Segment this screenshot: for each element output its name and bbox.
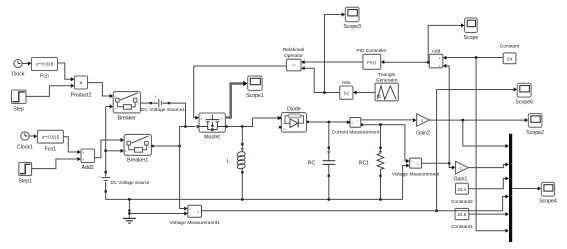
wire Breaker1 node down to Voltage Measurement1 plus bbox=[180, 146, 188, 211]
svg-text:Scope3: Scope3 bbox=[343, 24, 361, 30]
svg-text:Scope2: Scope2 bbox=[526, 130, 544, 136]
svg-text:+: + bbox=[98, 175, 100, 179]
resistor RC1 branch wire bbox=[380, 125, 382, 200]
wire Clock1 to Fcn1 bbox=[29, 134, 37, 138]
wire DC Voltage Source1 to Mosfet d bbox=[169, 103, 186, 125]
breaker block Breaker1 bbox=[124, 134, 151, 163]
wire Current Measurement i to Gain2 bbox=[361, 118, 417, 122]
svg-text:×: × bbox=[79, 81, 83, 87]
current measurement block Current Measurement bbox=[332, 118, 380, 136]
svg-text:Current Measurement: Current Measurement bbox=[332, 130, 380, 136]
svg-text:Scope6: Scope6 bbox=[515, 100, 533, 106]
svg-text:Operator: Operator bbox=[284, 53, 303, 59]
svg-text:+: + bbox=[189, 208, 191, 212]
svg-text:Fcn1: Fcn1 bbox=[45, 147, 57, 153]
svg-text:Scope: Scope bbox=[464, 35, 479, 41]
svg-text:v: v bbox=[197, 210, 199, 214]
scope block Scope6 bbox=[515, 83, 533, 105]
wire Voltage Measurement1 out bbox=[202, 209, 439, 212]
wire Mosfet right terminal to diode node bbox=[225, 125, 243, 128]
electrical bus vertical x105.7 Breaker in1 / Breaker1 in1 / DC Voltage Source bbox=[104, 104, 124, 199]
adder block Add bbox=[429, 48, 443, 68]
triangle generator block Triangle Generator bbox=[375, 72, 398, 101]
svg-text:DC Voltage Source1: DC Voltage Source1 bbox=[141, 107, 186, 113]
svg-text:Add2: Add2 bbox=[82, 165, 94, 171]
capacitor RC branch wire bbox=[328, 122, 330, 199]
adder block Add2 bbox=[81, 149, 95, 171]
svg-text:RC: RC bbox=[308, 161, 316, 167]
voltage measurement block Voltage Measurement bbox=[392, 158, 440, 177]
wire Mux out to Scope4 bbox=[512, 186, 541, 190]
ground symbol bbox=[123, 209, 136, 223]
step block Step1 bbox=[18, 162, 32, 184]
scope block Scope2 bbox=[526, 114, 544, 136]
wire Breaker1 out rail bbox=[151, 145, 181, 148]
wire Abs out to Relational Operator in2 and Scope3 bbox=[301, 12, 345, 94]
svg-text:u*+0.018: u*+0.018 bbox=[36, 62, 54, 67]
svg-text:Step: Step bbox=[13, 107, 24, 113]
clock block Clock1 bbox=[17, 132, 33, 151]
svg-text:Clock1: Clock1 bbox=[17, 145, 33, 151]
wire Gain1 to Mux in2 bbox=[468, 162, 509, 167]
scope block Scope bbox=[464, 18, 479, 41]
wire Constant 24 to Add in1 and Mux in6 bbox=[443, 56, 509, 233]
svg-text:Relational: Relational bbox=[283, 47, 304, 53]
svg-text:Add: Add bbox=[432, 48, 441, 54]
wire gate rail from Relational Operator to Mosfet g bbox=[194, 66, 287, 120]
svg-text:Abs: Abs bbox=[342, 80, 351, 86]
svg-text:PI(s): PI(s) bbox=[367, 60, 376, 65]
svg-text:+: + bbox=[439, 64, 441, 68]
wire Breaker1 rail up to Mosfet d node bbox=[180, 125, 187, 146]
wire Step to Product2 bbox=[26, 84, 74, 97]
scope block Scope4 bbox=[539, 182, 557, 204]
svg-text:Voltage Measurement: Voltage Measurement bbox=[392, 172, 440, 178]
wire Constant1 to Mux in5 bbox=[469, 212, 509, 216]
mosfet block Mosfet bbox=[199, 113, 225, 141]
wire node to Mosfet d bbox=[186, 125, 199, 127]
wire Clock to Fcn bbox=[22, 61, 31, 65]
svg-text:Constant1: Constant1 bbox=[451, 224, 473, 230]
svg-text:PID Controller: PID Controller bbox=[356, 48, 387, 54]
svg-text:24.6: 24.6 bbox=[458, 212, 467, 217]
svg-text:Breaker: Breaker bbox=[118, 116, 136, 122]
scope block Scope3 bbox=[343, 7, 361, 30]
svg-text:Constant2: Constant2 bbox=[451, 199, 473, 205]
svg-text:Constant: Constant bbox=[500, 44, 520, 50]
svg-text:Scope1: Scope1 bbox=[246, 93, 264, 99]
thick signal wire Mosfet m to Scope1 bbox=[225, 81, 247, 118]
clock block Clock bbox=[12, 59, 25, 77]
svg-text:+: + bbox=[439, 57, 441, 61]
constant block Constant 24 bbox=[500, 44, 520, 64]
wire Voltage Measurement1 to Scope6 and Mux in4 bbox=[437, 87, 517, 210]
wire node up to Diode in bbox=[242, 116, 281, 127]
svg-text:RC1: RC1 bbox=[359, 161, 369, 167]
svg-text:Clock: Clock bbox=[12, 72, 25, 78]
inductor L branch wire bbox=[241, 127, 243, 200]
gain block Gain2 bbox=[416, 114, 430, 137]
wire Triangle Generator to Abs bbox=[353, 90, 375, 94]
svg-text:DC Voltage Source: DC Voltage Source bbox=[111, 180, 151, 185]
wire Fcn to Product2 bbox=[58, 63, 75, 81]
svg-text:Mosfet: Mosfet bbox=[204, 135, 220, 141]
wire rail up to Voltage Measurement minus bbox=[403, 163, 410, 199]
dc voltage source battery (vertical) bbox=[98, 171, 150, 193]
svg-text:+: + bbox=[411, 160, 413, 164]
svg-text:-1: -1 bbox=[419, 118, 423, 123]
wire Gain2 to Scope2 and Mux in1 bbox=[430, 118, 529, 148]
constant block Constant2 23.4 bbox=[451, 183, 473, 205]
ground rail wire y199.4 bbox=[106, 198, 403, 201]
svg-text:<=: <= bbox=[291, 64, 296, 68]
svg-text:Gain2: Gain2 bbox=[416, 131, 430, 137]
svg-text:Voltage Measurement1: Voltage Measurement1 bbox=[170, 220, 221, 226]
svg-text:-1: -1 bbox=[458, 166, 462, 171]
wire Current Measurement electrical out bbox=[363, 123, 409, 163]
gain block Gain1 bbox=[454, 161, 469, 182]
constant block Constant1 24.6 bbox=[451, 208, 473, 230]
wire Breaker out to DC Voltage Source1 bbox=[141, 102, 151, 104]
svg-text:Scope4: Scope4 bbox=[539, 199, 557, 205]
svg-text:Breaker1: Breaker1 bbox=[127, 158, 148, 164]
fcn block Fcn u*+0.018 bbox=[32, 58, 58, 80]
inductor L bbox=[227, 143, 246, 174]
mux block Mux bbox=[509, 134, 512, 242]
resistor RC1 bbox=[359, 147, 384, 177]
step block Step bbox=[12, 90, 27, 113]
capacitor RC bbox=[308, 147, 335, 177]
svg-text:24: 24 bbox=[507, 56, 513, 62]
wire ground branch / Voltage Measurement1 minus bbox=[128, 199, 188, 215]
abs block Abs bbox=[340, 80, 353, 99]
wire Add2 to Breaker1 c bbox=[95, 138, 124, 158]
svg-text:23.4: 23.4 bbox=[458, 187, 467, 192]
svg-text:|u|: |u| bbox=[344, 91, 349, 96]
svg-text:Generator: Generator bbox=[376, 77, 398, 83]
svg-text:L: L bbox=[227, 159, 230, 165]
wire Product2 to Breaker c bbox=[88, 83, 114, 99]
svg-text:Gain1: Gain1 bbox=[454, 177, 468, 183]
dc voltage source1 battery (horizontal) bbox=[141, 95, 186, 113]
diode block Diode bbox=[279, 106, 307, 132]
wire PID out to Relational Operator in1 bbox=[301, 60, 363, 64]
wire Constant2 to Mux in3 bbox=[468, 176, 508, 188]
wire Add out to PID and Scope bbox=[381, 23, 465, 64]
scope block Scope1 bbox=[246, 76, 264, 99]
svg-text:v: v bbox=[418, 163, 420, 167]
svg-text:Triangle: Triangle bbox=[378, 72, 395, 78]
svg-text:u*+0.015: u*+0.015 bbox=[42, 135, 60, 140]
svg-text:Diode: Diode bbox=[287, 106, 301, 112]
wire Step1 to Add2 bbox=[32, 157, 81, 169]
pid controller block PID Controller bbox=[356, 48, 387, 70]
svg-text:Fcn: Fcn bbox=[40, 74, 49, 80]
wire Fcn1 to Add2 bbox=[63, 137, 80, 154]
svg-text:Step1: Step1 bbox=[18, 179, 32, 185]
voltage measurement1 block Voltage Measurement1 bbox=[170, 205, 221, 226]
product block Product2 bbox=[71, 76, 92, 99]
svg-text:+: + bbox=[351, 121, 353, 125]
relational operator block Relational Operator bbox=[283, 47, 304, 71]
fcn block Fcn1 u*+0.015 bbox=[37, 130, 63, 152]
wire Diode out to Current Measurement bbox=[307, 120, 350, 124]
svg-text:+: + bbox=[155, 95, 157, 99]
svg-text:Product2: Product2 bbox=[71, 93, 92, 99]
wire Voltage Measurement out to Add in2 and Gain1 bbox=[422, 64, 456, 170]
breaker block Breaker bbox=[113, 92, 140, 122]
